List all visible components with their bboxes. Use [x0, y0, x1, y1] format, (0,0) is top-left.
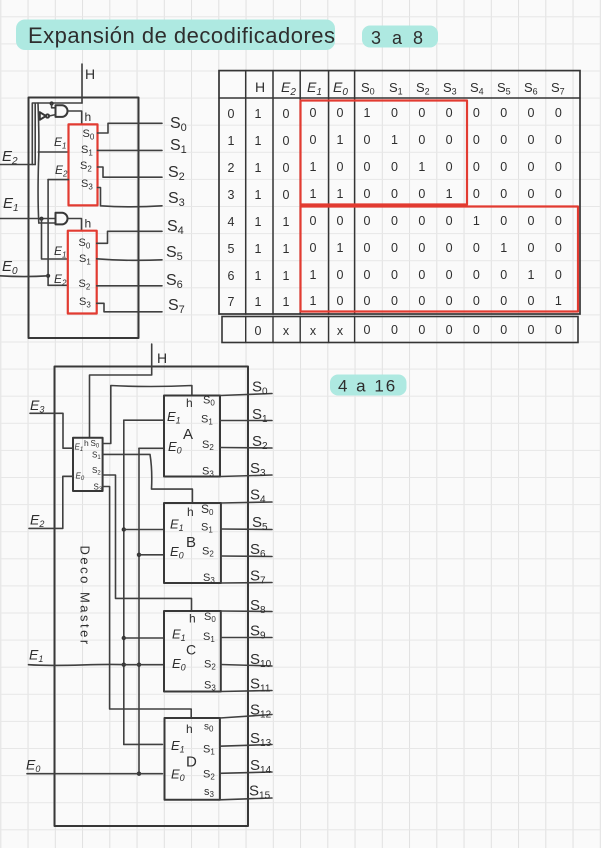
- decoder A box: [164, 396, 220, 477]
- svg-text:0: 0: [500, 268, 507, 282]
- svg-text:0: 0: [446, 323, 453, 337]
- wire output S14: [220, 772, 272, 773]
- junction dot C E1: [122, 636, 126, 640]
- table column line 4: [328, 71, 330, 314]
- wire to B E1: [124, 529, 164, 531]
- red zone rows 0-3: [301, 101, 468, 205]
- svg-text:1: 1: [310, 268, 317, 282]
- svg-text:0: 0: [528, 160, 535, 174]
- svg-text:1: 1: [283, 215, 290, 229]
- svg-text:0: 0: [446, 294, 453, 308]
- svg-text:1: 1: [283, 242, 290, 256]
- svg-text:0: 0: [528, 241, 535, 255]
- AND gate G1: [56, 105, 68, 117]
- svg-text:0: 0: [446, 214, 453, 228]
- svg-text:Expansión de decodificadores: Expansión de decodificadores: [28, 23, 336, 48]
- disable row divider 2: [272, 317, 274, 343]
- junction dot E0 entry: [137, 772, 141, 776]
- svg-text:0: 0: [337, 106, 344, 120]
- svg-text:1: 1: [255, 134, 262, 148]
- svg-text:0: 0: [555, 214, 562, 228]
- table header underline: [219, 97, 580, 99]
- outer enclosure box: [29, 98, 139, 339]
- table column line 2: [272, 71, 274, 314]
- svg-text:1: 1: [391, 133, 398, 147]
- wire output S0: [98, 123, 163, 133]
- svg-text:1: 1: [555, 294, 562, 308]
- svg-text:0: 0: [418, 214, 425, 228]
- svg-text:4: 4: [228, 215, 235, 229]
- svg-text:0: 0: [364, 133, 371, 147]
- wire output S4: [97, 231, 162, 243]
- svg-text:3: 3: [228, 188, 235, 202]
- wire inverter to G1: [49, 115, 55, 116]
- svg-text:h: h: [187, 505, 194, 519]
- junction dot at E1 entry crossing: [137, 663, 141, 667]
- svg-text:H: H: [85, 66, 95, 82]
- wire output S9: [221, 637, 272, 639]
- svg-text:1: 1: [255, 107, 262, 121]
- svg-text:0: 0: [418, 323, 425, 337]
- wire E2 riser b: [34, 103, 36, 164]
- svg-text:0: 0: [283, 188, 290, 202]
- svg-text:1: 1: [255, 215, 262, 229]
- svg-text:0: 0: [418, 187, 425, 201]
- wire to A E1: [124, 419, 164, 421]
- wire to D E1: [124, 743, 163, 745]
- wire to A E0: [139, 447, 164, 449]
- wire E1 distribution vertical: [123, 420, 125, 744]
- wire E2 entry: [0, 164, 35, 166]
- svg-text:0: 0: [310, 106, 317, 120]
- svg-text:7: 7: [228, 295, 235, 309]
- svg-text:0: 0: [446, 268, 453, 282]
- wire H to master h: [90, 344, 152, 438]
- svg-text:x: x: [283, 324, 290, 338]
- svg-text:4 a 16: 4 a 16: [338, 377, 397, 396]
- wire to C E1: [124, 637, 164, 639]
- wire output S0: [220, 394, 272, 396]
- svg-text:0: 0: [418, 268, 425, 282]
- svg-text:1: 1: [500, 241, 507, 255]
- svg-text:0: 0: [283, 161, 290, 175]
- junction dot J3: [46, 274, 50, 278]
- svg-text:1: 1: [310, 294, 317, 308]
- svg-text:0: 0: [255, 324, 262, 338]
- decoder C box: [164, 611, 221, 692]
- svg-text:0: 0: [310, 133, 317, 147]
- svg-text:0: 0: [446, 160, 453, 174]
- svg-text:2: 2: [228, 161, 235, 175]
- svg-text:0: 0: [500, 214, 507, 228]
- svg-text:0: 0: [418, 133, 425, 147]
- svg-text:B: B: [186, 534, 196, 551]
- wire master S0 to A h: [103, 386, 192, 444]
- svg-text:0: 0: [337, 294, 344, 308]
- svg-text:0: 0: [391, 106, 398, 120]
- wire G1 output to decoder h: [68, 111, 81, 124]
- decoder U1 (upper red box): [69, 124, 98, 205]
- wire to B E0: [139, 554, 164, 556]
- svg-text:0: 0: [528, 106, 535, 120]
- wire to U1 E1 input: [38, 151, 68, 153]
- svg-text:0: 0: [473, 294, 480, 308]
- wire E2 to master E0: [29, 476, 73, 528]
- svg-text:0: 0: [391, 241, 398, 255]
- svg-text:H: H: [255, 79, 265, 95]
- disable row divider 5: [354, 317, 356, 343]
- wire output S4: [221, 502, 272, 503]
- svg-text:h: h: [189, 612, 196, 626]
- wire master S1 to B h: [103, 454, 193, 503]
- svg-text:0: 0: [528, 214, 535, 228]
- svg-text:0: 0: [228, 107, 235, 121]
- svg-text:1: 1: [255, 161, 262, 175]
- inverter bubble: [46, 114, 49, 117]
- svg-text:0: 0: [500, 187, 507, 201]
- disable row values: [255, 323, 562, 338]
- svg-text:6: 6: [228, 269, 235, 283]
- svg-text:0: 0: [500, 323, 507, 337]
- svg-text:0: 0: [310, 241, 317, 255]
- svg-text:0: 0: [446, 133, 453, 147]
- svg-text:0: 0: [364, 214, 371, 228]
- svg-text:0: 0: [555, 268, 562, 282]
- svg-text:0: 0: [364, 294, 371, 308]
- svg-text:0: 0: [500, 160, 507, 174]
- wire J1 to AND gate G1 input: [52, 104, 56, 108]
- wire G2 output to U2 h: [68, 219, 81, 231]
- wire master S3 to D h: [103, 487, 192, 719]
- svg-text:h: h: [85, 217, 92, 231]
- svg-text:1: 1: [255, 269, 262, 283]
- svg-text:1: 1: [364, 106, 371, 120]
- svg-text:0: 0: [391, 214, 398, 228]
- highlight: 3 a 8 marker: [362, 26, 438, 48]
- svg-text:0: 0: [555, 160, 562, 174]
- svg-text:h: h: [186, 722, 193, 736]
- svg-text:1: 1: [283, 295, 290, 309]
- wire output S1: [220, 420, 272, 422]
- svg-text:0: 0: [500, 106, 507, 120]
- svg-text:1: 1: [255, 242, 262, 256]
- AND gate G2: [56, 213, 68, 225]
- wire distribution to G2 lower input: [39, 222, 56, 224]
- svg-text:1: 1: [473, 214, 480, 228]
- svg-text:0: 0: [391, 268, 398, 282]
- disable row box: [222, 317, 578, 343]
- svg-text:H: H: [157, 350, 167, 366]
- svg-text:0: 0: [446, 106, 453, 120]
- svg-text:1: 1: [283, 269, 290, 283]
- decoder B box: [164, 503, 221, 583]
- table column line 1: [245, 71, 247, 314]
- table column line 5: [354, 71, 356, 314]
- svg-text:0: 0: [555, 133, 562, 147]
- svg-text:0: 0: [337, 268, 344, 282]
- svg-text:0: 0: [364, 241, 371, 255]
- disable row divider 3: [299, 317, 301, 343]
- wire E2 riser a: [31, 103, 33, 165]
- wire output S5: [221, 528, 272, 531]
- highlight: title marker: [16, 20, 335, 51]
- red zone rows 4-7: [301, 207, 579, 312]
- wire output S12: [220, 715, 272, 719]
- outer enclosure box: [55, 367, 249, 827]
- svg-text:0: 0: [555, 241, 562, 255]
- svg-text:0: 0: [473, 187, 480, 201]
- wire H vertical: [81, 64, 83, 103]
- svg-text:0: 0: [310, 214, 317, 228]
- inverter (NOT) on G1 input: [40, 112, 46, 120]
- svg-text:A: A: [183, 426, 193, 443]
- svg-text:0: 0: [555, 323, 562, 337]
- wire output S1: [98, 149, 163, 151]
- svg-text:0: 0: [364, 268, 371, 282]
- svg-text:0: 0: [391, 294, 398, 308]
- svg-text:0: 0: [283, 134, 290, 148]
- svg-text:1: 1: [228, 134, 235, 148]
- svg-text:x: x: [310, 324, 317, 338]
- svg-text:0: 0: [473, 268, 480, 282]
- svg-text:0: 0: [473, 106, 480, 120]
- wire output S2: [98, 167, 163, 177]
- svg-text:0: 0: [337, 160, 344, 174]
- svg-text:1: 1: [337, 133, 344, 147]
- svg-text:0: 0: [555, 106, 562, 120]
- svg-text:0: 0: [473, 160, 480, 174]
- junction dot J1: [50, 101, 54, 105]
- svg-text:0: 0: [364, 323, 371, 337]
- svg-text:0: 0: [473, 323, 480, 337]
- wire E1 entry to G2: [0, 218, 56, 220]
- svg-text:0: 0: [528, 323, 535, 337]
- table body values: [228, 106, 562, 309]
- disable row divider 1: [245, 317, 247, 343]
- svg-text:Deco Master: Deco Master: [78, 546, 93, 647]
- svg-text:0: 0: [391, 160, 398, 174]
- svg-text:0: 0: [473, 241, 480, 255]
- wire E0 distribution vertical: [138, 448, 140, 773]
- svg-text:0: 0: [473, 133, 480, 147]
- wire E0 vertical distribution: [47, 180, 49, 286]
- wire J2 down to U2 E1: [42, 219, 68, 259]
- wire H horizontal run: [33, 102, 82, 104]
- wire E0 entry: [0, 275, 48, 278]
- wire output S6: [221, 555, 272, 558]
- wire output S6: [97, 285, 162, 287]
- svg-text:0: 0: [283, 107, 290, 121]
- svg-text:0: 0: [500, 294, 507, 308]
- wire output S3: [220, 475, 272, 477]
- wire distribution vertical (wavy): [37, 103, 40, 223]
- svg-text:0: 0: [418, 241, 425, 255]
- svg-text:0: 0: [528, 133, 535, 147]
- svg-text:1: 1: [337, 241, 344, 255]
- disable row divider 4: [328, 317, 330, 343]
- svg-text:1: 1: [310, 187, 317, 201]
- wire output S11: [221, 691, 272, 692]
- svg-text:h: h: [186, 396, 193, 410]
- wire to U1 E2 input: [48, 179, 68, 181]
- svg-text:0: 0: [391, 187, 398, 201]
- svg-text:1: 1: [337, 187, 344, 201]
- wire output S10: [221, 665, 272, 667]
- svg-text:1: 1: [418, 160, 425, 174]
- junction dot B E1: [122, 527, 126, 531]
- svg-text:1: 1: [255, 188, 262, 202]
- table outer frame: [219, 71, 580, 314]
- svg-text:0: 0: [555, 187, 562, 201]
- svg-text:0: 0: [391, 323, 398, 337]
- wire output S15: [220, 798, 272, 800]
- wire to U2 E2 input: [48, 284, 68, 286]
- wire E0 entry: [27, 773, 162, 775]
- highlight: 4 a 16 marker: [330, 375, 407, 396]
- wire master S2 to C h: [103, 475, 192, 611]
- wire E3 to master E1: [30, 413, 73, 448]
- wire output S13: [220, 745, 272, 747]
- svg-text:5: 5: [228, 242, 235, 256]
- junction dot J2: [39, 217, 43, 221]
- svg-text:0: 0: [364, 187, 371, 201]
- table column line 3: [299, 71, 301, 314]
- svg-text:0: 0: [528, 187, 535, 201]
- svg-text:h: h: [84, 438, 89, 448]
- svg-text:0: 0: [446, 241, 453, 255]
- svg-text:0: 0: [418, 106, 425, 120]
- wire output S7: [97, 303, 162, 312]
- svg-text:h: h: [85, 110, 92, 124]
- svg-text:1: 1: [255, 295, 262, 309]
- wire output S7: [221, 582, 272, 585]
- wire output S3: [98, 188, 163, 207]
- svg-text:1: 1: [446, 187, 453, 201]
- svg-text:C: C: [186, 642, 196, 658]
- svg-text:x: x: [337, 324, 344, 338]
- decoder U3 Deco Master box: [73, 438, 103, 491]
- junction dot B E0: [137, 553, 141, 557]
- svg-text:0: 0: [528, 294, 535, 308]
- svg-text:0: 0: [500, 133, 507, 147]
- svg-text:1: 1: [310, 160, 317, 174]
- decoder D box: [165, 718, 220, 800]
- svg-text:0: 0: [364, 160, 371, 174]
- wire output S5: [97, 259, 162, 261]
- svg-text:0: 0: [418, 294, 425, 308]
- wire E1 entry: [29, 664, 165, 665]
- wire output S8: [221, 610, 272, 613]
- svg-text:0: 0: [337, 214, 344, 228]
- svg-text:1: 1: [528, 268, 535, 282]
- junction dot E1 entry: [122, 663, 126, 667]
- wire output S2: [220, 447, 272, 450]
- decoder U2 (lower red box): [68, 231, 97, 314]
- svg-text:D: D: [186, 754, 197, 771]
- svg-text:3 a 8: 3 a 8: [371, 28, 426, 48]
